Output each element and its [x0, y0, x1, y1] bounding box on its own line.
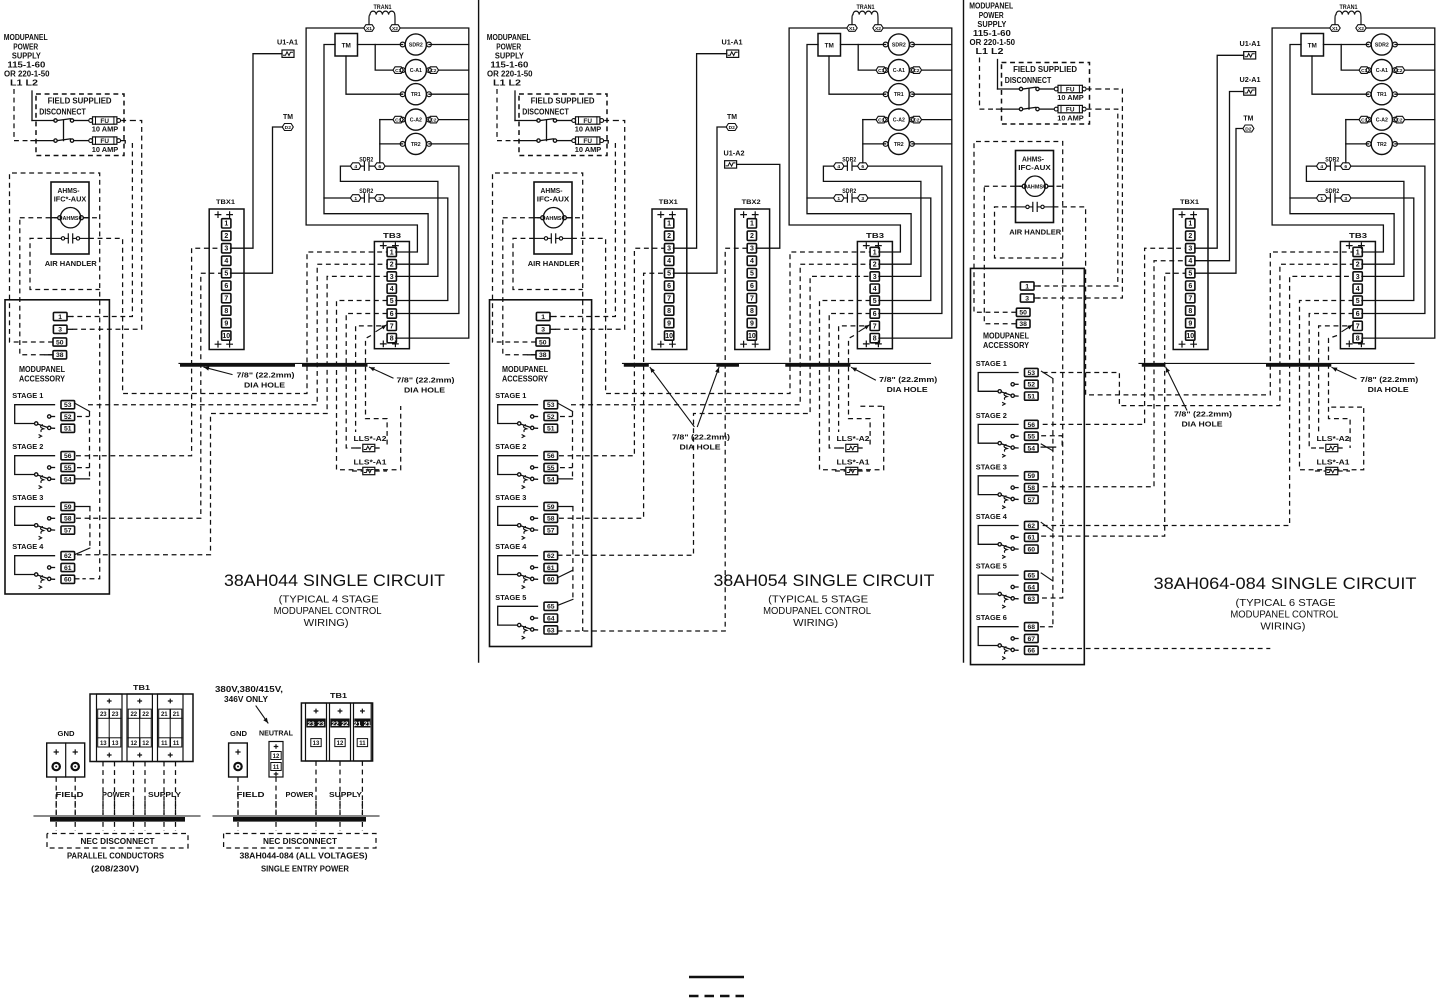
svg-text:TM: TM: [1243, 116, 1253, 123]
svg-text:STAGE 4: STAGE 4: [12, 542, 44, 551]
stage 3 terminal 59 (38AH044): [61, 502, 75, 511]
svg-text:4: 4: [1320, 164, 1323, 170]
accessory terminal 1 (38AH064-084): [1020, 282, 1034, 291]
svg-text:38: 38: [1019, 321, 1027, 328]
TB3 plus mark top-right (38AH044): [393, 243, 399, 249]
TB1 module 23 plus bottom: [108, 753, 112, 757]
wire U1-A2 to TBX2-3 (38AH054): [737, 164, 780, 248]
transformer TRAN1 coil (38AH054): [852, 11, 878, 24]
dashed conductor below label left group: [133, 801, 135, 815]
svg-text:61: 61: [1028, 535, 1036, 542]
svg-text:6: 6: [750, 283, 754, 290]
dashed conductor 8 left group: [175, 762, 177, 816]
dashed 58 row to TBX1-5 (38AH044): [76, 273, 222, 518]
svg-text:11: 11: [359, 741, 366, 747]
stage 2 aux circle (38AH044): [48, 466, 51, 469]
TB1 module 21 separator: [158, 718, 160, 738]
svg-text:7: 7: [750, 296, 754, 303]
svg-text:FIELD: FIELD: [56, 790, 85, 799]
TBX1 plus bottom-right (38AH054): [670, 341, 676, 347]
svg-text:AIR HANDLER: AIR HANDLER: [528, 259, 581, 268]
accessory terminal 38 (38AH054): [536, 351, 550, 360]
svg-text:54: 54: [1028, 445, 1036, 452]
contact bars SDR2 4-6 (38AH054): [844, 162, 858, 170]
thick rail right group: [233, 817, 366, 822]
stage 2 pivot circle (38AH054): [518, 473, 521, 476]
svg-text:11: 11: [173, 741, 180, 747]
svg-text:SUPPLY: SUPPLY: [12, 52, 42, 61]
svg-text:IFC*-AUX: IFC*-AUX: [54, 197, 87, 204]
svg-text:FIELD: FIELD: [237, 790, 266, 799]
dashed fuse2 to accessory 1 (38AH064-084): [1038, 109, 1118, 286]
relay TR1 (38AH044): [400, 84, 431, 105]
accessory terminal 1 stub (38AH054): [550, 316, 555, 318]
TBX1 plus top-left (38AH044): [215, 212, 221, 218]
svg-text:10: 10: [1186, 333, 1194, 340]
dashed conductor under rail right group: [315, 822, 317, 831]
svg-text:STAGE 4: STAGE 4: [976, 512, 1008, 521]
svg-text:AIR HANDLER: AIR HANDLER: [1009, 228, 1062, 237]
svg-text:5: 5: [873, 298, 877, 305]
wire disconnect feed row 1 (38AH064-084): [998, 88, 1020, 90]
wire X2 to right bus to TB3-8 (38AH054): [879, 28, 952, 338]
svg-text:115-1-60: 115-1-60: [490, 61, 529, 70]
TB3 terminal 6 (38AH064-084): [1353, 309, 1362, 318]
stage 6 wire blade to terminal (38AH064-084): [1014, 649, 1018, 651]
stage 2 terminal 55 (38AH044): [61, 463, 75, 472]
wire X2 to right bus to TB3-8 (38AH064-084): [1362, 28, 1435, 338]
thick rail left group: [50, 817, 185, 822]
relay TR1 (38AH064-084): [1366, 84, 1397, 105]
LLS*-A1 lead right (38AH054): [858, 470, 870, 472]
mounting rail thick segment 3 (38AH054): [785, 364, 850, 367]
AHMS-IFC-AUX box (38AH054): [534, 182, 572, 254]
terminal X2 (38AH054): [873, 25, 883, 32]
stage 6 pivot circle (38AH064-084): [998, 644, 1001, 647]
terminal X2 (38AH064-084): [1356, 25, 1366, 32]
TBX1 terminal 10 (38AH054): [665, 331, 674, 340]
TB3 terminal 7 (38AH064-084): [1353, 321, 1362, 330]
fuse FU row 1 (38AH044): [89, 117, 121, 125]
terminal block TBX2 box (38AH054): [735, 209, 770, 350]
svg-text:LLS*-A1: LLS*-A1: [837, 460, 870, 467]
wire TR2 to right bus (38AH064-084): [1395, 143, 1435, 145]
svg-text:3: 3: [1356, 274, 1360, 281]
stage 1 wire blade to terminal (38AH054): [534, 427, 538, 429]
dashed TB3-7 stub (38AH064-084): [1319, 326, 1347, 432]
stage 3 terminal 57 (38AH054): [544, 526, 558, 535]
TB1 module cell 12: [140, 738, 151, 747]
wire TR2 to right bus (38AH044): [429, 143, 469, 145]
stage 4 aux circle (38AH064-084): [1011, 536, 1014, 539]
svg-text:8: 8: [224, 308, 228, 315]
dashed 52 stub (38AH054): [560, 416, 573, 418]
54 stub (38AH064-084): [1041, 446, 1055, 448]
dashed TB3-7 stub (38AH044): [356, 326, 381, 432]
hole arrow left (38AH064-084): [1166, 367, 1187, 410]
dashed inner loop to 38 (38AH064-084): [984, 186, 1016, 324]
svg-text:53: 53: [64, 402, 72, 409]
svg-text:5: 5: [1356, 298, 1360, 305]
svg-text:21: 21: [354, 721, 362, 728]
TB1 module 21 plus top: [168, 699, 172, 703]
stage 3 actuator squiggle (38AH064-084): [1002, 496, 1007, 509]
svg-text:23: 23: [100, 712, 107, 718]
TBX2 terminal 6 (38AH054): [747, 281, 756, 290]
dashed conductor below label left group: [163, 801, 165, 815]
MODUPANEL ACCESSORY box (38AH054): [490, 300, 592, 647]
TB3 plus mark bottom-right (38AH044): [393, 341, 399, 347]
stage 4 terminal 62 (38AH064-084): [1025, 521, 1039, 530]
svg-text:POWER: POWER: [979, 11, 1004, 20]
switch blade row 1 (38AH054): [540, 119, 553, 121]
dashed 55 elbow to 54 (38AH064-084): [1041, 436, 1062, 447]
TB1 right module 23 plus: [314, 709, 318, 713]
svg-text:SDR2: SDR2: [892, 43, 906, 49]
wire TBX1-3 to U1-A1 (38AH064-084): [1195, 55, 1244, 248]
stage 3 aux circle (38AH054): [531, 517, 534, 520]
dashed conductor under rail left group: [55, 822, 57, 831]
dashed conductor under rail left group: [144, 822, 146, 831]
dashed fuse2 to accessory 1 (38AH044): [72, 143, 132, 317]
stage 4 switch blade (38AH064-084): [1001, 545, 1011, 548]
svg-text:3: 3: [667, 246, 671, 253]
accessory terminal 38 stub (38AH044): [45, 354, 53, 356]
stage 6 terminal 67 (38AH064-084): [1025, 634, 1039, 643]
stage 3 aux circle (38AH064-084): [1011, 486, 1014, 489]
dashed conductor under rail left group: [102, 822, 104, 831]
svg-text:13: 13: [100, 741, 107, 747]
svg-text:57: 57: [64, 528, 72, 535]
terminal C2 of C-A1 (38AH064-084): [1394, 67, 1405, 74]
terminal C2 of C-A2 (38AH064-084): [1394, 116, 1405, 123]
wire disconnect feed row 2 (38AH064-084): [997, 108, 1020, 110]
TBX1 plus bottom-left (38AH054): [658, 341, 664, 347]
AHMS relay circle (38AH064-084): [1025, 176, 1045, 196]
TBX2 terminal 1 (38AH054): [747, 219, 756, 228]
stage 1 terminal 53 (38AH044): [61, 401, 75, 410]
svg-text:12: 12: [142, 741, 149, 747]
svg-text:1: 1: [1320, 196, 1323, 202]
dashed stage common vertical (38AH064-084): [1052, 379, 1054, 627]
svg-text:POWER: POWER: [13, 43, 38, 52]
LLS*-A2 lead left (38AH044): [356, 447, 363, 449]
TB3 plus mark top-left (38AH064-084): [1347, 243, 1353, 249]
switch blade row 1 (38AH064-084): [1023, 87, 1036, 89]
mounting rail thick segment 1 (38AH044): [180, 364, 295, 367]
stage 1 terminal 51 (38AH044): [61, 424, 75, 433]
stage 5 pivot circle (38AH064-084): [998, 592, 1001, 595]
switch tie bar (38AH054): [546, 121, 548, 141]
stage 1 blade circle (38AH044): [48, 426, 51, 429]
svg-text:11: 11: [273, 765, 280, 771]
stage 4 pivot circle (38AH054): [518, 573, 521, 576]
legend solid line: [689, 976, 744, 978]
svg-text:DIA HOLE: DIA HOLE: [1182, 420, 1223, 429]
NEC DISCONNECT dashed box left group: [47, 834, 188, 849]
svg-text:SINGLE ENTRY POWER: SINGLE ENTRY POWER: [261, 865, 349, 874]
stage 1 aux stub (38AH064-084): [1014, 383, 1018, 385]
TB3 plus mark bottom-right (38AH054): [876, 341, 882, 347]
dashed conductor below label right group: [315, 801, 317, 815]
wire junction to C-A2 C1 (38AH054): [863, 119, 876, 121]
svg-text:346V ONLY: 346V ONLY: [224, 695, 269, 704]
dashed fuse1 to accessory 3 (38AH064-084): [1038, 89, 1123, 298]
svg-text:STAGE 1: STAGE 1: [976, 359, 1007, 368]
svg-text:TR1: TR1: [894, 92, 904, 98]
terminal C1 of C-A2 (38AH064-084): [1359, 116, 1370, 123]
AHMS right pin (38AH064-084): [1044, 184, 1048, 188]
svg-text:3: 3: [541, 327, 545, 334]
svg-text:3: 3: [1188, 246, 1192, 253]
svg-text:C2: C2: [913, 68, 920, 74]
contact terminal 1 of SDR2 (38AH064-084): [1317, 195, 1328, 202]
dashed TB3-5 to LLS box (38AH054): [820, 301, 884, 470]
stage 5 loop wire (38AH054): [498, 606, 538, 625]
svg-text:68: 68: [1028, 624, 1036, 631]
dashed 56 row to TBX1-3 (38AH054): [559, 248, 665, 456]
stage 2 wire blade to terminal (38AH044): [51, 478, 55, 480]
svg-text:4: 4: [390, 286, 394, 293]
dashed out of fuse 1 (38AH054): [604, 120, 614, 122]
svg-text:8: 8: [667, 308, 671, 315]
switch blade row 2 (38AH044): [57, 139, 70, 141]
svg-text:TM: TM: [1308, 42, 1317, 49]
stage 1 wire blade to terminal (38AH044): [51, 427, 55, 429]
stage 5 actuator squiggle (38AH054): [522, 626, 527, 639]
NEUTRAL plus top: [274, 745, 277, 748]
terminal C1 of C-A2 (38AH044): [393, 116, 404, 123]
section divider between circuit 2 and 3: [963, 0, 965, 662]
wire TBX1-5 to TM D2 (38AH064-084): [1195, 129, 1243, 274]
NEUTRAL cell 11: [271, 763, 281, 771]
stage 4 terminal 61 (38AH044): [61, 563, 75, 572]
timer TM box (38AH064-084): [1301, 34, 1324, 57]
stage 4 terminal 60 (38AH044): [61, 575, 75, 584]
svg-text:7/8" (22.2mm): 7/8" (22.2mm): [1360, 375, 1419, 384]
svg-text:10 AMP: 10 AMP: [575, 124, 602, 133]
dashed conductor 4 right group: [339, 761, 341, 815]
TB3 plus mark top-left (38AH044): [381, 243, 387, 249]
stage 3 terminal 59 (38AH064-084): [1025, 472, 1039, 481]
svg-text:3: 3: [390, 274, 394, 281]
mounting rail thick segment 2 (38AH054): [716, 364, 739, 367]
svg-text:57: 57: [547, 528, 555, 535]
TB1 outer box right group: [301, 703, 372, 761]
stage 5 terminal 65 (38AH064-084): [1025, 571, 1039, 580]
svg-text:1: 1: [354, 196, 357, 202]
stage 4 aux stub (38AH054): [534, 567, 538, 569]
svg-text:6: 6: [873, 311, 877, 318]
mounting rail thick segment 2 (38AH064-084): [1266, 364, 1331, 367]
stage 5 blade circle (38AH054): [531, 628, 534, 631]
contactor C-A2 (38AH044): [400, 109, 431, 130]
svg-text:DIA HOLE: DIA HOLE: [1368, 385, 1409, 394]
terminal block TBX1 box (38AH064-084): [1173, 209, 1208, 350]
svg-text:PARALLEL CONDUCTORS: PARALLEL CONDUCTORS: [67, 852, 164, 861]
transformer TRAN1 coil (38AH064-084): [1335, 11, 1361, 24]
terminal C2 of C-A2 (38AH054): [911, 116, 922, 123]
stage 1 blade circle (38AH064-084): [1011, 394, 1014, 397]
stage 3 blade circle (38AH044): [48, 528, 51, 531]
terminal C2 of C-A1 (38AH054): [911, 67, 922, 74]
dashed conductor 3 left group: [102, 762, 104, 816]
stage 3 pivot circle (38AH044): [35, 524, 38, 527]
LLS*-A1 lead right (38AH064-084): [1338, 470, 1350, 472]
MODUPANEL ACCESSORY box (38AH064-084): [971, 268, 1085, 664]
svg-text:X2: X2: [875, 26, 881, 32]
LLS*-A1 lead left (38AH054): [835, 470, 846, 472]
TB1 module 23 separator: [108, 718, 110, 738]
TBX1 terminal 3 (38AH054): [665, 244, 674, 253]
dashed 52 stub (38AH044): [77, 416, 90, 418]
svg-text:6: 6: [1188, 283, 1192, 290]
stage 2 wire blade to terminal (38AH054): [534, 478, 538, 480]
dashed conductor under rail left group: [175, 822, 177, 831]
stage 5 wire blade to terminal (38AH064-084): [1014, 598, 1018, 600]
wire C-A2 C2 to right bus (38AH064-084): [1405, 119, 1435, 121]
switch tie bar (38AH044): [63, 121, 65, 141]
stage 1 terminal 52 (38AH044): [61, 412, 75, 421]
contact terminal 1 of SDR2 (38AH044): [350, 195, 361, 202]
TBX1 terminal 7 (38AH044): [222, 294, 231, 303]
svg-text:58: 58: [1028, 485, 1036, 492]
dashed AHMS outer loop (38AH044): [10, 173, 100, 579]
stage 5 switch blade (38AH064-084): [1001, 595, 1011, 598]
svg-text:STAGE 3: STAGE 3: [976, 462, 1007, 471]
TB1 right module cell 12: [335, 739, 345, 747]
stage 1 terminal 52 (38AH054): [544, 412, 558, 421]
svg-text:55: 55: [64, 465, 72, 472]
stage 4 terminal 60 (38AH054): [544, 575, 558, 584]
svg-text:7: 7: [1356, 323, 1360, 330]
stage 1 actuator squiggle (38AH044): [39, 425, 44, 438]
svg-text:2: 2: [873, 262, 877, 269]
hole arrow right (38AH054): [852, 368, 876, 381]
contactor C-A2 (38AH054): [883, 109, 914, 130]
TB3 terminal 2 (38AH054): [870, 260, 879, 269]
svg-text:7: 7: [224, 296, 228, 303]
TB1 right module 23 box: [306, 703, 327, 761]
svg-text:C-A1: C-A1: [1376, 68, 1388, 74]
dashed pointer 54 (38AH064-084): [1041, 444, 1053, 451]
wire junction TM node to SDR2 contact 1 (38AH054): [807, 197, 834, 199]
TBX2 plus top-right (38AH054): [752, 212, 758, 218]
svg-text:TR2: TR2: [411, 142, 421, 148]
svg-text:MODUPANEL: MODUPANEL: [502, 365, 548, 374]
TB3 terminal 4 (38AH064-084): [1353, 284, 1362, 293]
svg-text:61: 61: [547, 565, 555, 572]
svg-text:65: 65: [547, 604, 555, 611]
TB1 right module 21 box: [354, 703, 372, 761]
svg-text:5: 5: [667, 271, 671, 278]
svg-text:1: 1: [837, 196, 840, 202]
dashed conductor below label left group: [175, 801, 177, 815]
svg-text:STAGE 2: STAGE 2: [976, 411, 1007, 420]
svg-text:3: 3: [58, 327, 62, 334]
mounting rail thick segment 1 (38AH064-084): [1142, 364, 1166, 367]
stage 2 loop wire (38AH064-084): [978, 424, 1018, 443]
svg-text:C-A1: C-A1: [410, 68, 422, 74]
dashed conductor under rail left group: [163, 822, 165, 831]
svg-text:IFC-AUX: IFC-AUX: [1018, 165, 1051, 172]
svg-text:61: 61: [64, 565, 72, 572]
svg-text:8: 8: [873, 336, 877, 343]
TB1 module cell 11: [159, 738, 170, 747]
stage 5 terminal 64 (38AH064-084): [1025, 583, 1039, 592]
accessory terminal 3 (38AH054): [536, 325, 550, 334]
dashed out of fuse 2 (38AH064-084): [1087, 108, 1097, 110]
svg-text:AIR HANDLER: AIR HANDLER: [45, 259, 98, 268]
TBX1 terminal 9 (38AH064-084): [1186, 318, 1195, 327]
U2-A1 unloader (38AH064-084): [1244, 88, 1256, 95]
svg-text:AHMS-: AHMS-: [1022, 157, 1045, 164]
stage 1 aux stub (38AH054): [534, 416, 538, 418]
wire TBX1-3 to U1-A1 (38AH054): [673, 54, 726, 249]
svg-text:60: 60: [547, 577, 555, 584]
svg-text:D2: D2: [285, 125, 292, 131]
accessory terminal 38 stub (38AH054): [528, 354, 536, 356]
stage 5 wire blade to terminal (38AH054): [534, 629, 538, 631]
svg-text:4: 4: [837, 164, 840, 170]
stage 1 pivot circle (38AH064-084): [998, 390, 1001, 393]
svg-text:SDR2: SDR2: [1325, 189, 1340, 195]
svg-text:STAGE 3: STAGE 3: [495, 493, 526, 502]
AHMS relay circle (38AH044): [60, 208, 80, 228]
wire junction to TR2 (38AH064-084): [1346, 143, 1369, 145]
TB1 module 23 box: [97, 694, 123, 762]
svg-text:59: 59: [64, 504, 72, 511]
stage 5 blade circle (38AH064-084): [1011, 597, 1014, 600]
switch pole circle b row 2 (38AH064-084): [1036, 107, 1039, 110]
MODUPANEL ACCESSORY box (38AH044): [5, 300, 109, 594]
LLS*-A2 solenoid (38AH044): [363, 444, 375, 451]
TB1 module 21 separator: [169, 718, 171, 738]
svg-text:MODUPANEL CONTROL: MODUPANEL CONTROL: [1230, 610, 1338, 621]
wire junction to TR2 (38AH044): [380, 143, 403, 145]
wire disconnect feed row 2 (38AH054): [514, 140, 537, 142]
dashed contact row right to run P (38AH064-084): [1054, 207, 1354, 395]
LLS*-A2 lead left (38AH054): [839, 447, 846, 449]
dashed TB3-8 to LLS-A2 right (38AH054): [849, 336, 871, 449]
svg-text:POWER: POWER: [286, 790, 314, 799]
stage 4 loop wire (38AH054): [498, 556, 538, 575]
svg-text:50: 50: [539, 339, 547, 346]
switch blade row 2 (38AH054): [540, 139, 553, 141]
switch pole circle a row 2 (38AH064-084): [1019, 107, 1022, 110]
TB3 plus mark top-right (38AH054): [876, 243, 882, 249]
svg-text:4: 4: [873, 286, 877, 293]
stage 1 terminal 53 (38AH054): [544, 401, 558, 410]
svg-text:3: 3: [1025, 295, 1029, 302]
fuse FU row 2 (38AH054): [572, 137, 604, 145]
contact bars SDR2 4-6 (38AH064-084): [1327, 162, 1341, 170]
svg-text:3: 3: [378, 196, 381, 202]
svg-text:STAGE 3: STAGE 3: [12, 493, 43, 502]
svg-text:WIRING): WIRING): [304, 618, 349, 629]
dashed conductor below label left group: [74, 801, 76, 815]
stage 1 pivot circle (38AH054): [518, 422, 521, 425]
mounting rail line (38AH044): [179, 362, 449, 364]
svg-text:L1 L2: L1 L2: [493, 79, 522, 88]
stage 4 terminal 62 (38AH044): [61, 552, 75, 561]
svg-text:6: 6: [390, 311, 394, 318]
wire L1 dashed (38AH064-084): [980, 58, 997, 110]
stage 2 switch blade (38AH064-084): [1001, 444, 1011, 447]
dashed 58 row to TBX1-5 (38AH054): [559, 273, 665, 518]
arrow into TB3-7 (38AH054): [859, 325, 870, 332]
TB1 module 22 plus top: [138, 699, 142, 703]
